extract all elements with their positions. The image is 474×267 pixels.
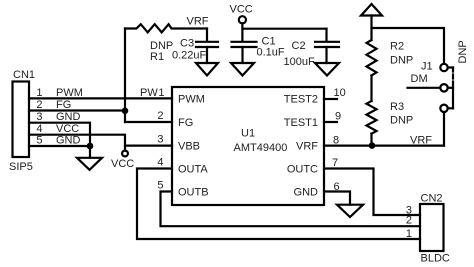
svg-text:5: 5 — [36, 135, 42, 147]
svg-text:OUTC: OUTC — [287, 164, 318, 176]
wire R3 to VRF — [370, 134, 372, 146]
svg-text:VRF: VRF — [410, 135, 432, 147]
svg-text:DNP: DNP — [390, 115, 413, 127]
wire VRF to C3 — [206, 29, 208, 42]
ground C2 — [315, 63, 339, 76]
svg-text:10: 10 — [334, 87, 346, 99]
svg-text:DNP: DNP — [457, 40, 469, 63]
jumper J1 pin3 — [440, 105, 447, 112]
wire top rail to J1 pin1 — [372, 28, 445, 64]
wire J1 pin1 stub — [448, 66, 453, 68]
wire flag to R2 — [370, 16, 372, 41]
wire FG jog to U1 pin2 — [125, 121, 172, 123]
connector CN1 body — [13, 82, 30, 158]
svg-text:PWM: PWM — [56, 87, 83, 99]
wire R1/FG vertical — [124, 29, 126, 123]
wire VBB branch to U1 pin3 — [125, 145, 172, 147]
wire VCC rail — [243, 28, 327, 30]
power port VCC (top) — [239, 16, 246, 23]
wire CN1 pin1 PWM to U1 pin1 — [29, 97, 172, 99]
pin 9 stub — [324, 121, 337, 123]
svg-text:VBB: VBB — [178, 141, 200, 153]
svg-text:J1: J1 — [421, 61, 433, 73]
svg-text:4: 4 — [36, 123, 42, 135]
wire OUTC pin7 to CN2 pin3 — [324, 169, 420, 216]
pin 10 stub — [324, 98, 337, 100]
svg-text:TEST1: TEST1 — [284, 117, 318, 129]
svg-text:C3: C3 — [180, 38, 194, 50]
wire CN1 pin3 GND — [29, 123, 90, 158]
wire CN1 pin2 FG — [29, 109, 125, 111]
svg-text:GND: GND — [294, 187, 319, 199]
jumper J1 pin1 — [440, 64, 447, 71]
ground C1 — [231, 63, 254, 76]
svg-text:SIP5: SIP5 — [9, 161, 33, 173]
svg-text:FG: FG — [178, 117, 193, 129]
svg-text:CN1: CN1 — [13, 69, 35, 81]
ground U1 pin6 — [337, 205, 363, 217]
svg-text:5: 5 — [157, 180, 163, 192]
wire R2 to R3 — [370, 76, 372, 102]
svg-text:OUTB: OUTB — [178, 187, 209, 199]
wire VRF net pin8 — [324, 145, 444, 147]
svg-text:9: 9 — [335, 111, 341, 123]
svg-text:8: 8 — [333, 135, 339, 147]
node GND junction dot — [87, 143, 94, 150]
svg-text:U1: U1 — [241, 128, 255, 140]
wire J1 pin2 stub — [448, 87, 453, 89]
wire J1 pin3 to VRF — [443, 112, 445, 146]
wire CN1 pin4 VCC — [29, 135, 125, 151]
node VRF junction dot — [369, 142, 376, 149]
svg-text:TEST2: TEST2 — [284, 94, 318, 106]
svg-text:VCC: VCC — [111, 158, 134, 170]
svg-text:GND: GND — [56, 111, 81, 123]
svg-text:3: 3 — [157, 134, 163, 146]
svg-text:0.1uF: 0.1uF — [257, 47, 285, 59]
wire OUTB pin5 to CN2 pin2 — [161, 192, 421, 227]
capacitor C1 — [232, 41, 257, 43]
wire VCC to C2 — [325, 29, 327, 41]
ground CN1 — [77, 158, 102, 170]
svg-text:C2: C2 — [292, 40, 306, 52]
wire CN1 pin5 GND — [29, 145, 90, 147]
svg-text:DNP: DNP — [390, 55, 413, 67]
svg-text:PW: PW — [140, 87, 158, 99]
wire J1 dashed DNP segment — [452, 68, 454, 88]
wire GND pin6 — [324, 192, 350, 205]
svg-text:VRF: VRF — [296, 141, 318, 153]
capacitor C2 — [315, 41, 339, 43]
svg-text:3: 3 — [36, 111, 42, 123]
op-amp U1 body — [172, 87, 324, 205]
wire DM — [408, 87, 441, 89]
wire J1 pin2-pin3 link — [452, 88, 454, 109]
jumper J1 pin2 — [440, 84, 447, 91]
power port VCC (near CN1) — [122, 151, 128, 157]
svg-text:2: 2 — [36, 99, 42, 111]
svg-text:OUTA: OUTA — [178, 164, 208, 176]
svg-text:R3: R3 — [390, 101, 404, 113]
svg-text:4: 4 — [157, 157, 163, 169]
svg-text:R1: R1 — [150, 51, 164, 63]
svg-text:1: 1 — [406, 228, 412, 240]
svg-text:6: 6 — [334, 181, 340, 193]
svg-text:PWM: PWM — [178, 94, 205, 106]
svg-text:BLDC: BLDC — [421, 253, 450, 265]
wire OUTA pin4 to CN2 pin1 — [137, 169, 420, 240]
resistor R3 — [367, 101, 377, 134]
svg-text:2: 2 — [406, 215, 412, 227]
svg-text:100uF: 100uF — [284, 56, 315, 68]
resistor R2 — [367, 40, 377, 76]
svg-text:1: 1 — [36, 87, 42, 99]
connector CN2 body — [420, 204, 444, 251]
svg-text:0.22uF: 0.22uF — [172, 50, 207, 62]
svg-text:VCC: VCC — [230, 4, 253, 16]
ground C3 — [196, 63, 218, 76]
svg-text:2: 2 — [157, 110, 163, 122]
svg-text:7: 7 — [332, 157, 338, 169]
svg-text:VCC: VCC — [56, 123, 79, 135]
node FG junction dot — [122, 108, 129, 115]
resistor R1 — [125, 24, 207, 32]
capacitor C3 — [196, 41, 218, 43]
power flag VBB (up triangle) — [361, 4, 382, 16]
svg-text:VRF: VRF — [187, 16, 209, 28]
svg-text:AMT49400: AMT49400 — [234, 142, 288, 154]
svg-text:1: 1 — [158, 87, 164, 99]
svg-text:CN2: CN2 — [421, 193, 443, 205]
svg-text:FG: FG — [56, 99, 71, 111]
svg-text:DM: DM — [411, 73, 428, 85]
svg-text:R2: R2 — [390, 41, 404, 53]
svg-text:GND: GND — [56, 135, 81, 147]
wire J1 pin3 stub — [448, 107, 453, 109]
